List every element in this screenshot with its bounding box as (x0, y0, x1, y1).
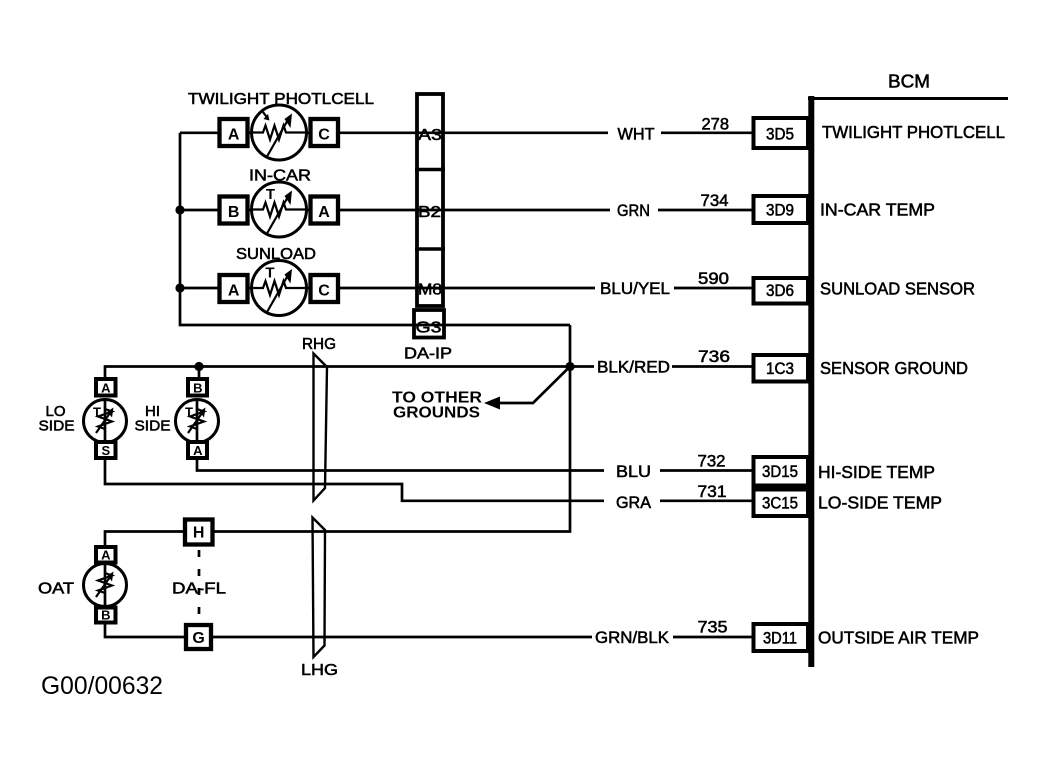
BCM boundary line (808, 96, 1008, 667)
sensor U1 twilight photocell (252, 105, 307, 160)
sensor lo-side temp (84, 399, 127, 443)
node: junction blk/red mid vertical (565, 362, 574, 371)
svg-text:B: B (228, 204, 240, 221)
svg-text:A3: A3 (418, 127, 442, 144)
sensor hi-side temp (176, 399, 219, 443)
svg-text:B2: B2 (418, 204, 441, 221)
svg-text:3D5: 3D5 (766, 126, 794, 144)
svg-text:A: A (101, 381, 111, 396)
svg-text:BCM: BCM (888, 72, 930, 92)
svg-text:B: B (101, 608, 110, 623)
svg-text:590: 590 (698, 270, 729, 288)
svg-text:736: 736 (698, 348, 730, 366)
wire: blu hi-side to 3D15 (197, 459, 753, 471)
svg-text:C: C (318, 127, 330, 144)
terminal A (sunload) (220, 275, 248, 302)
svg-text:3D9: 3D9 (766, 202, 794, 220)
terminal A (lo-side) (96, 379, 116, 396)
svg-text:3C15: 3C15 (762, 495, 798, 513)
wire: mid vertical ground link (105, 325, 570, 547)
terminal A (hi-side) (188, 442, 207, 458)
connector pin 1C3 (754, 355, 809, 382)
sensor U2 in-car temp (252, 182, 307, 237)
grommet RHG (302, 336, 336, 501)
svg-text:A: A (193, 443, 203, 458)
svg-text:G3: G3 (416, 320, 442, 337)
connector DA-IP strip (414, 94, 445, 338)
connector pin 3D5 (754, 118, 809, 148)
svg-text:A: A (318, 204, 330, 221)
label LO SIDE (39, 403, 75, 435)
terminal C (twilight) (311, 119, 339, 146)
wire: row3 sunload to 3D6 (180, 287, 753, 290)
grommet LHG (301, 518, 338, 680)
node: junction sunload bus (175, 283, 184, 292)
svg-text:S: S (101, 443, 110, 458)
svg-text:OUTSIDE AIR TEMP: OUTSIDE AIR TEMP (818, 628, 979, 648)
svg-text:LO-SIDE TEMP: LO-SIDE TEMP (818, 493, 942, 513)
svg-text:A: A (228, 127, 240, 144)
svg-text:G: G (192, 630, 204, 647)
svg-text:T: T (185, 405, 193, 420)
terminal A (oat) (96, 547, 116, 563)
connector cell G (DA-FL) (186, 625, 211, 649)
svg-text:731: 731 (698, 483, 727, 501)
svg-text:GRN/BLK: GRN/BLK (595, 629, 669, 647)
svg-text:DA-IP: DA-IP (404, 346, 452, 363)
terminal A (twilight) (220, 119, 248, 146)
wire: gra lo-side to 3C15 (105, 459, 753, 501)
svg-text:RHG: RHG (302, 336, 336, 353)
svg-text:G00/00632: G00/00632 (41, 672, 163, 700)
connector pin 3C15 (754, 490, 809, 517)
terminal B (oat) (96, 608, 116, 623)
connector pin 3D15 (754, 457, 809, 486)
svg-text:T: T (266, 186, 275, 203)
svg-text:T: T (93, 405, 101, 420)
svg-text:M8: M8 (418, 282, 442, 299)
svg-text:3D11: 3D11 (763, 630, 797, 648)
sensor U3 sunload (252, 261, 307, 316)
svg-text:SIDE: SIDE (39, 418, 75, 435)
svg-text:OAT: OAT (38, 581, 74, 598)
svg-text:GROUNDS: GROUNDS (393, 405, 480, 422)
svg-text:B: B (193, 381, 202, 396)
node: junction in-car bus (175, 205, 184, 214)
wire: left ground bus (180, 133, 570, 325)
svg-text:734: 734 (701, 192, 729, 210)
wire: row2 in-car to 3D9 (180, 209, 753, 212)
svg-text:C: C (318, 283, 330, 300)
svg-text:LHG: LHG (301, 662, 338, 679)
terminal S (lo-side) (96, 442, 116, 458)
svg-text:HI-SIDE TEMP: HI-SIDE TEMP (818, 462, 935, 482)
svg-text:SUNLOAD SENSOR: SUNLOAD SENSOR (820, 279, 975, 299)
connector cell H (DA-FL) (185, 520, 213, 545)
svg-text:SIDE: SIDE (135, 418, 171, 435)
svg-text:TWILIGHT PHOTLCELL: TWILIGHT PHOTLCELL (822, 122, 1005, 142)
wire: DA-FL dashed connector link (198, 550, 201, 622)
svg-text:GRN: GRN (617, 202, 650, 220)
wire: grn/blk oat to 3D11 (105, 623, 753, 637)
svg-text:DA-FL: DA-FL (172, 581, 226, 598)
svg-text:A: A (228, 283, 240, 300)
svg-text:GRA: GRA (616, 494, 651, 512)
connector pin 3D11 (754, 624, 809, 651)
label TO OTHER GROUNDS (392, 390, 482, 422)
svg-text:1C3: 1C3 (766, 360, 794, 378)
svg-text:BLK/RED: BLK/RED (597, 359, 670, 377)
terminal C (sunload) (311, 275, 339, 302)
svg-text:BLU: BLU (616, 463, 651, 481)
svg-text:IN-CAR: IN-CAR (249, 168, 311, 185)
sensor OAT outside air temp (84, 563, 127, 607)
svg-text:SUNLOAD: SUNLOAD (236, 246, 316, 263)
wire: row1 twilight photocell to 3D5 (180, 131, 753, 134)
node: junction hi-side ground (194, 362, 203, 371)
terminal A (in-car) (311, 197, 339, 224)
svg-text:735: 735 (698, 619, 728, 637)
connector pin 3D9 (754, 196, 809, 223)
svg-text:TWILIGHT PHOTLCELL: TWILIGHT PHOTLCELL (188, 91, 374, 108)
svg-text:A: A (101, 548, 111, 563)
svg-text:278: 278 (702, 116, 730, 134)
arrow: to other grounds (484, 367, 570, 410)
svg-text:WHT: WHT (618, 126, 655, 144)
svg-text:IN-CAR TEMP: IN-CAR TEMP (820, 200, 935, 220)
svg-text:BLU/YEL: BLU/YEL (600, 280, 670, 298)
svg-text:H: H (193, 525, 205, 542)
terminal B (hi-side) (188, 379, 207, 396)
svg-text:732: 732 (698, 453, 726, 471)
terminal B (in-car) (220, 197, 248, 224)
svg-text:SENSOR GROUND: SENSOR GROUND (820, 358, 968, 378)
wire: blk/red sensor ground to 1C3 (105, 367, 753, 379)
svg-text:3D15: 3D15 (762, 463, 798, 481)
svg-text:3D6: 3D6 (766, 282, 794, 300)
svg-text:T: T (265, 265, 274, 282)
connector pin 3D6 (754, 278, 809, 304)
label HI SIDE (135, 403, 171, 435)
